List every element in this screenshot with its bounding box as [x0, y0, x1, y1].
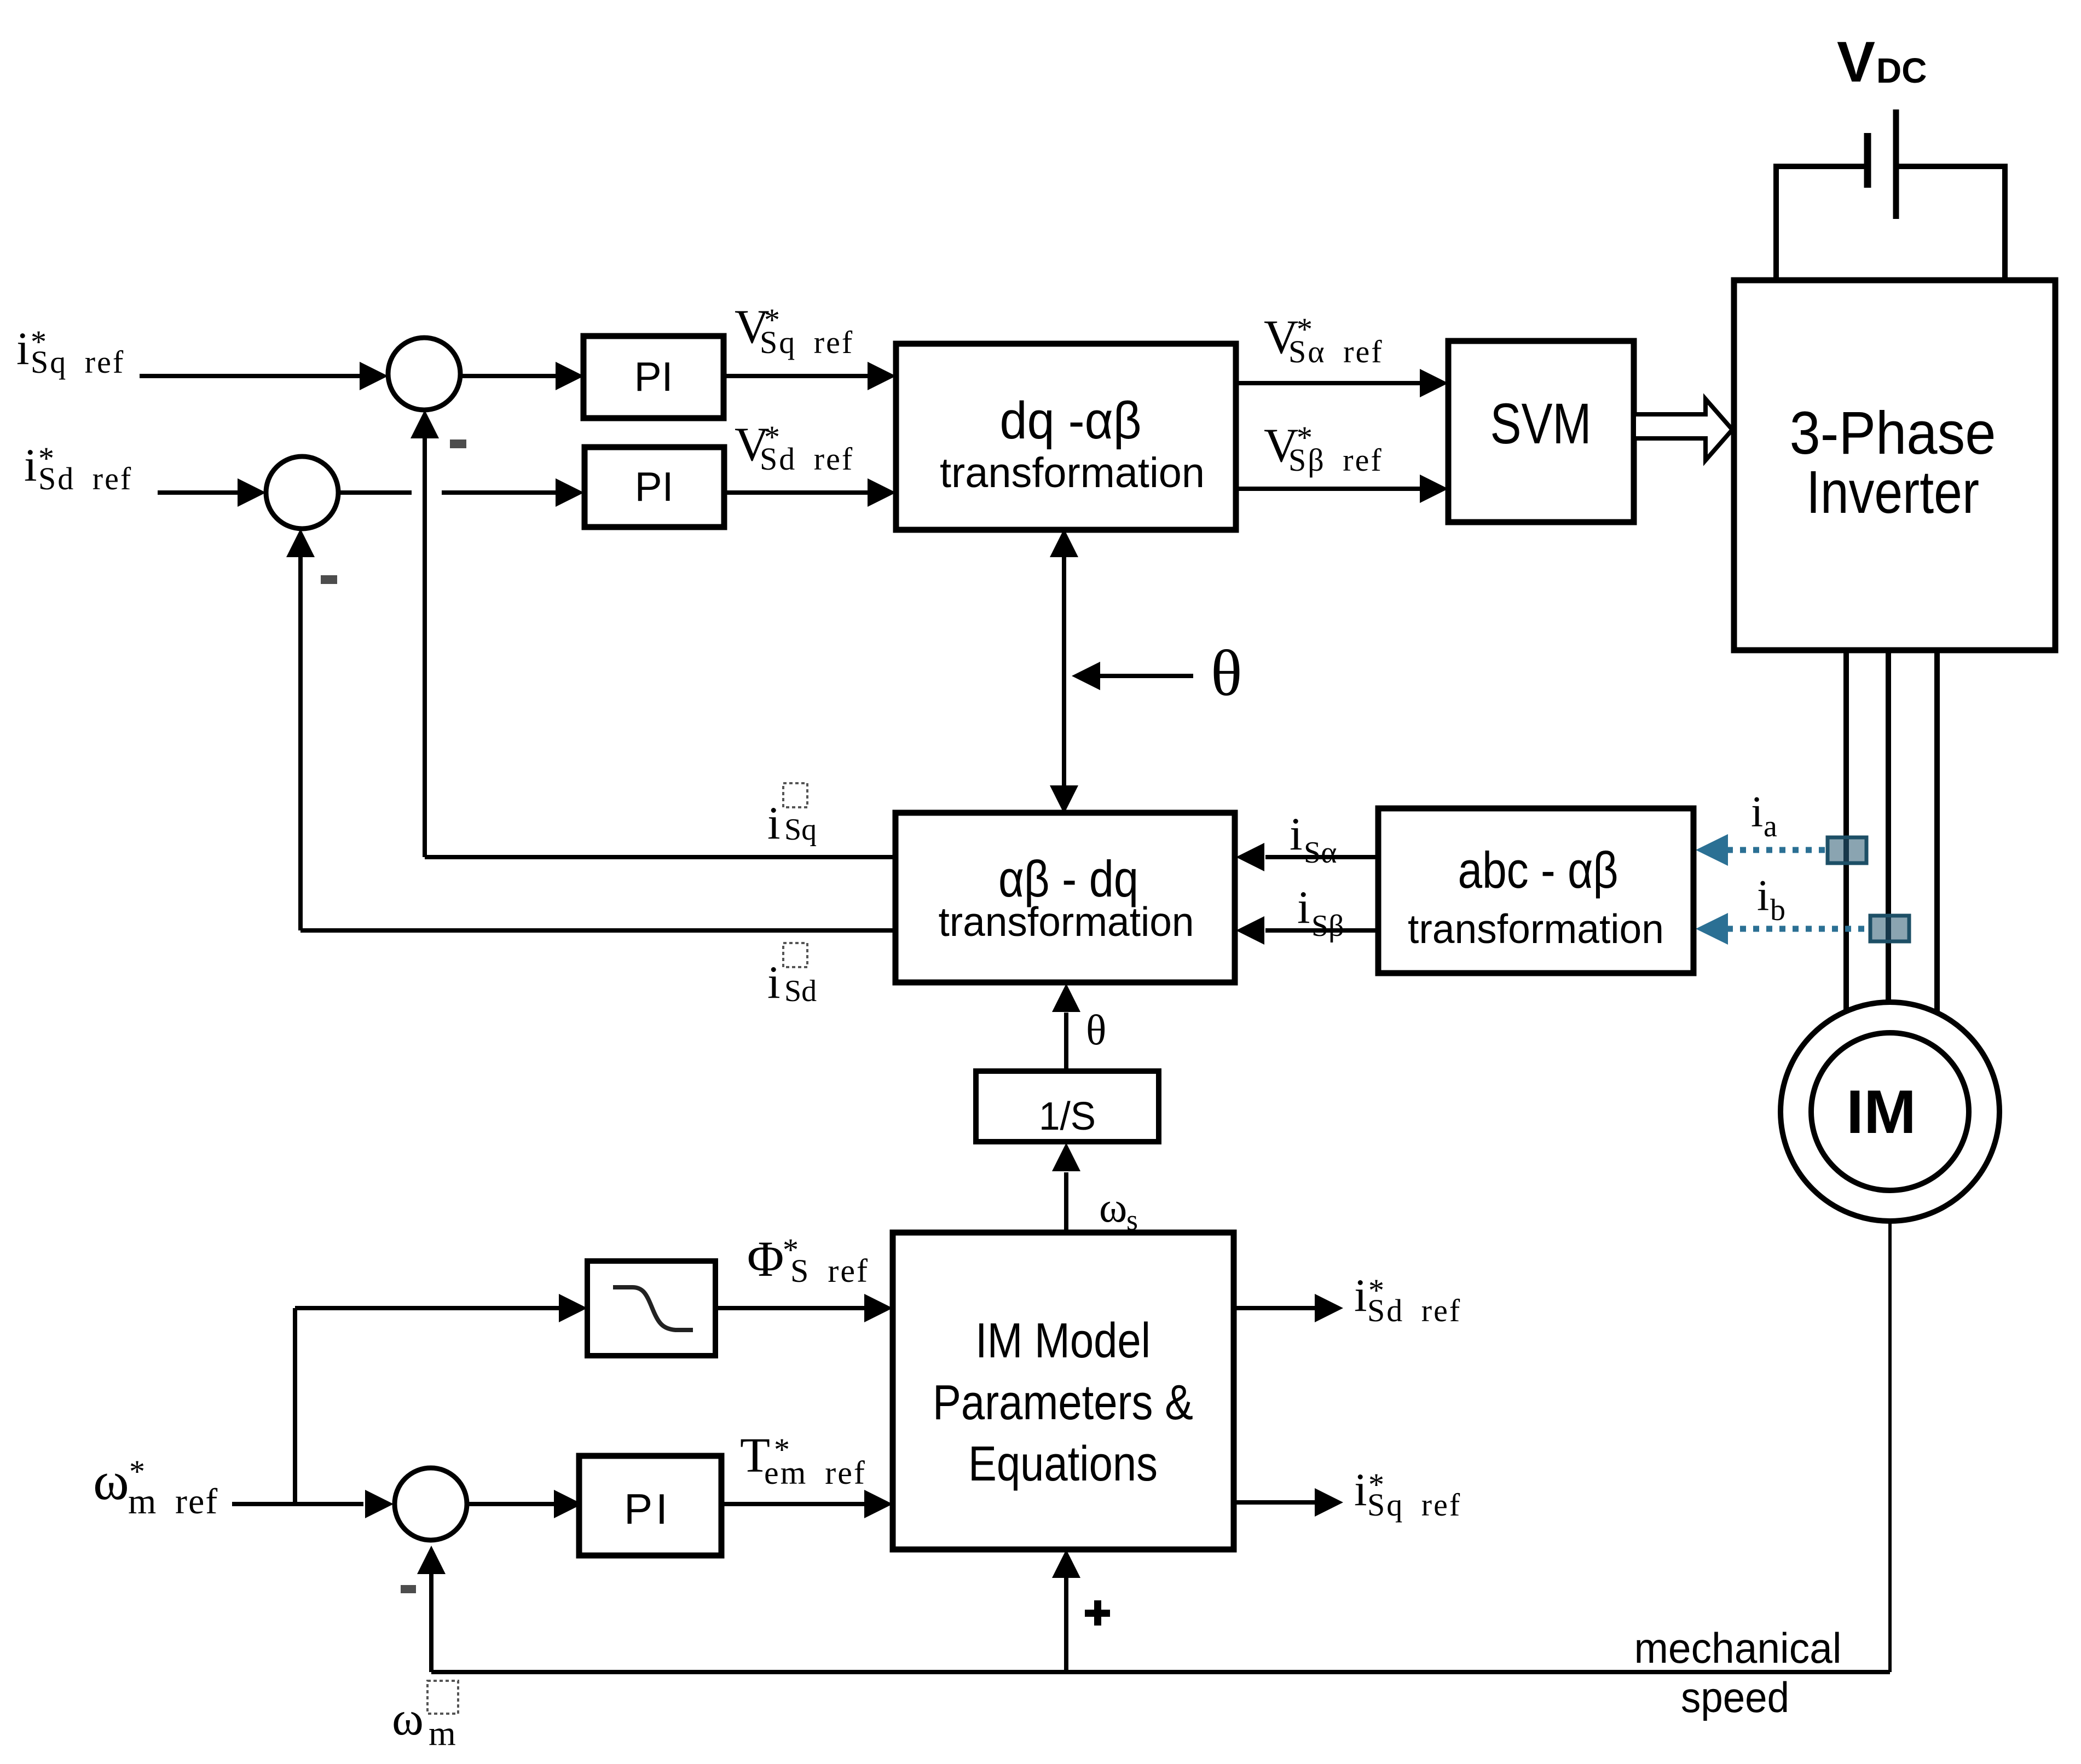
arrow up into S1 [411, 410, 439, 438]
wire theta input horizontal [1100, 674, 1193, 678]
wire omega-s IMmodel to 1S [1064, 1172, 1068, 1233]
IM model block [893, 1233, 1234, 1549]
svg-text:SVM: SVM [1490, 392, 1592, 456]
wire dq to SVM alpha [1236, 381, 1421, 385]
svg-text:IM: IM [1846, 1078, 1916, 1146]
arrow up theta into alphabeta-dq bottom [1052, 984, 1080, 1012]
wire IM model out iSd ref [1234, 1306, 1315, 1310]
wire dq to SVM beta [1236, 487, 1421, 491]
label i*Sd ref out [1354, 1270, 1461, 1328]
svg-text:Sq ref: Sq ref [1367, 1487, 1461, 1523]
svg-text:em ref: em ref [764, 1455, 866, 1491]
label V*Sd ref [735, 418, 854, 477]
alphabeta-dq transformation block [895, 813, 1235, 982]
label VDC [1837, 30, 1927, 94]
svg-text:i: i [1297, 882, 1310, 933]
svg-text:Sβ: Sβ [1311, 909, 1344, 943]
svg-text:i: i [16, 323, 30, 374]
arrow into dq from PI1 [868, 362, 896, 390]
arrow into flux block [559, 1294, 587, 1322]
svg-text:transformation: transformation [1408, 906, 1664, 952]
3-phase inverter block [1734, 280, 2055, 650]
arrow into S1 [360, 362, 388, 390]
label V*Sbeta ref [1264, 419, 1383, 478]
svg-text:i: i [24, 439, 37, 491]
induction motor IM [1781, 1002, 1999, 1221]
svg-text:transformation: transformation [939, 899, 1194, 945]
arrow into PI2 [556, 478, 584, 507]
svg-text:mechanical: mechanical [1634, 1624, 1842, 1672]
arrow into S2 [238, 478, 266, 507]
label V*Salpha ref [1264, 311, 1384, 369]
svg-text:i: i [767, 797, 781, 849]
label iSbeta [1297, 882, 1344, 943]
wire motor shaft vertical [1888, 1221, 1892, 1672]
svg-text:Parameters &: Parameters & [933, 1375, 1193, 1430]
arrow out iSq ref [1315, 1488, 1343, 1517]
arrow into IM model from flux [864, 1294, 893, 1322]
label ia [1751, 788, 1777, 843]
battery long plate [1893, 109, 1899, 219]
svg-text:speed: speed [1681, 1673, 1789, 1721]
svg-text:s: s [1126, 1204, 1138, 1236]
svg-text:3-Phase: 3-Phase [1790, 400, 1996, 467]
svg-text:i: i [1354, 1270, 1367, 1321]
svg-text:dq -αβ: dq -αβ [1000, 391, 1142, 450]
label T*em ref [740, 1428, 866, 1491]
arrow up omega-s into 1S [1052, 1143, 1080, 1171]
wire plus feedback vertical into IM model [1064, 1576, 1068, 1672]
wire speed feedback vertical into S3 [429, 1574, 433, 1672]
arrow out iSd ref [1315, 1294, 1343, 1322]
abc-alphabeta transformation block [1378, 808, 1693, 973]
arrow up into S2 [286, 529, 315, 557]
svg-text:i: i [1354, 1464, 1367, 1516]
svg-text:i: i [1757, 872, 1769, 920]
wire PI2 to dq block [724, 490, 869, 495]
arrow into SVM alpha [1420, 369, 1448, 397]
wire abc to alphabeta iSb [1265, 928, 1378, 933]
battery wiring [1776, 164, 2005, 280]
svg-text:Sd ref: Sd ref [1367, 1293, 1461, 1328]
svg-text:θ: θ [1211, 637, 1242, 709]
1/S block [976, 1071, 1159, 1142]
wire input iSq ref [140, 374, 361, 378]
svg-text:IM Model: IM Model [975, 1314, 1151, 1368]
label i*Sd ref [24, 439, 132, 496]
svg-text:PI: PI [624, 1485, 671, 1533]
wire abc to alphabeta iSa [1265, 855, 1378, 859]
label i*Sq ref [16, 323, 125, 380]
summing junction S2 [266, 456, 338, 529]
svg-text:Φ: Φ [747, 1231, 784, 1287]
svg-text:Sq: Sq [784, 813, 817, 847]
svg-text:ref: ref [175, 1482, 218, 1522]
wire PI3 to IM model [720, 1502, 865, 1506]
label mechanical speed [1634, 1624, 1842, 1721]
arrow into PI3 [554, 1490, 582, 1518]
wire S1 to PI1 [461, 374, 557, 378]
arrow up into dq bottom [1050, 529, 1078, 557]
svg-text:1/S: 1/S [1039, 1095, 1096, 1138]
wire feedback iSq vertical [423, 438, 427, 857]
svg-text:m: m [429, 1714, 456, 1753]
flux reference block [587, 1261, 715, 1356]
arrow into SVM beta [1420, 475, 1448, 503]
svg-text:i: i [1751, 788, 1763, 836]
wire S2 to PI2 segment b [442, 490, 556, 495]
arrow into dq from PI2 [868, 478, 896, 507]
svg-text:Sα: Sα [1304, 836, 1337, 870]
wire theta double arrow vertical [1062, 557, 1066, 786]
wire S2 to PI2 segment a [338, 490, 412, 495]
svg-text:DC: DC [1876, 51, 1927, 90]
svg-text:Sβ ref: Sβ ref [1288, 442, 1383, 478]
minus sign S1 [450, 439, 466, 448]
dashed sense line ia [1727, 847, 1828, 853]
label V*Sq ref [735, 300, 854, 360]
svg-text:V: V [1837, 30, 1875, 94]
minus sign S3 [401, 1585, 416, 1593]
wire S3 to PI3 [468, 1502, 555, 1506]
svg-text:transformation: transformation [940, 449, 1205, 496]
label omega*m ref [93, 1450, 218, 1522]
PI block PI1 [583, 336, 724, 418]
arrow into PI1 [556, 362, 584, 390]
summing junction S1 [388, 338, 460, 410]
svg-text:S ref: S ref [790, 1253, 869, 1289]
wire input iSd ref [158, 490, 239, 495]
inverter output line c [1934, 650, 1940, 1023]
svg-text:Equations: Equations [968, 1437, 1158, 1491]
svg-text:PI: PI [634, 354, 673, 400]
label iSd with dotted box [767, 943, 817, 1008]
label omega-s [1099, 1183, 1138, 1236]
battery short plate [1864, 133, 1871, 188]
wire flux block to IM model [715, 1306, 865, 1310]
label iSq with dotted box [767, 783, 817, 849]
svg-text:i: i [767, 957, 781, 1008]
wire feedback iSq horizontal [425, 855, 895, 859]
SVM block [1448, 341, 1634, 522]
svg-text:abc - αβ: abc - αβ [1458, 841, 1618, 899]
wire branch vertical [293, 1308, 297, 1504]
wire PI1 to dq block [724, 374, 869, 378]
wire omega-m ref input [232, 1502, 363, 1506]
svg-text:b: b [1770, 893, 1785, 927]
arrow up plus into IM model [1052, 1549, 1080, 1578]
wire feedback iSd horizontal [300, 928, 895, 933]
label plus [1085, 1600, 1110, 1626]
dq-alphabeta transformation block [896, 344, 1236, 530]
svg-text:Sd: Sd [784, 974, 817, 1008]
minus sign S2 [321, 575, 337, 584]
dashed sense line ib [1727, 926, 1870, 932]
arrow into IM model from PI3 [864, 1490, 893, 1518]
svg-text:Sq ref: Sq ref [31, 344, 125, 380]
svg-text:ω: ω [93, 1450, 129, 1511]
label ib [1757, 872, 1785, 927]
PI block PI3 [579, 1456, 721, 1555]
arrow into alphabeta-dq iSb [1236, 916, 1264, 945]
svg-text:i: i [1290, 808, 1303, 860]
arrow into alphabeta-dq iSa [1236, 843, 1264, 871]
wire theta 1S to alphabeta-dq [1064, 1013, 1068, 1071]
arrow into S3 [365, 1490, 394, 1518]
label omega-m with dotted box [392, 1681, 458, 1753]
wire feedback iSd vertical [298, 557, 303, 930]
label i*Sq ref out [1354, 1464, 1461, 1523]
arrow down into alphabeta-dq top [1050, 785, 1078, 814]
svg-text:m: m [128, 1482, 156, 1522]
current sensor ib [1870, 916, 1909, 941]
summing junction S3 [395, 1468, 467, 1540]
inverter output line a [1843, 650, 1849, 1016]
PI block PI2 [585, 447, 724, 527]
svg-text:ω: ω [392, 1692, 424, 1745]
svg-text:Sα ref: Sα ref [1288, 334, 1384, 369]
arrow left theta input [1072, 662, 1100, 690]
block arrow SVM to inverter [1634, 399, 1732, 460]
current sensor ia [1828, 837, 1866, 863]
arrow up into S3 [417, 1546, 446, 1574]
label iSalpha [1290, 808, 1337, 870]
svg-text:Sd ref: Sd ref [38, 461, 132, 496]
inverter output line b [1886, 650, 1891, 1007]
svg-text:PI: PI [635, 464, 674, 510]
svg-text:Sq ref: Sq ref [760, 325, 854, 360]
svg-text:θ: θ [1086, 1006, 1106, 1054]
wire branch horizontal to flux block [295, 1306, 559, 1310]
svg-text:Sd ref: Sd ref [760, 441, 854, 477]
svg-text:ω: ω [1099, 1183, 1127, 1231]
wire speed feedback horizontal [431, 1670, 1890, 1674]
arrowheads [238, 362, 1448, 1578]
svg-text:a: a [1764, 809, 1777, 843]
label Phi*S ref [747, 1231, 869, 1289]
wire IM model out iSq ref [1234, 1500, 1315, 1505]
svg-text:Inverter: Inverter [1806, 459, 1979, 526]
